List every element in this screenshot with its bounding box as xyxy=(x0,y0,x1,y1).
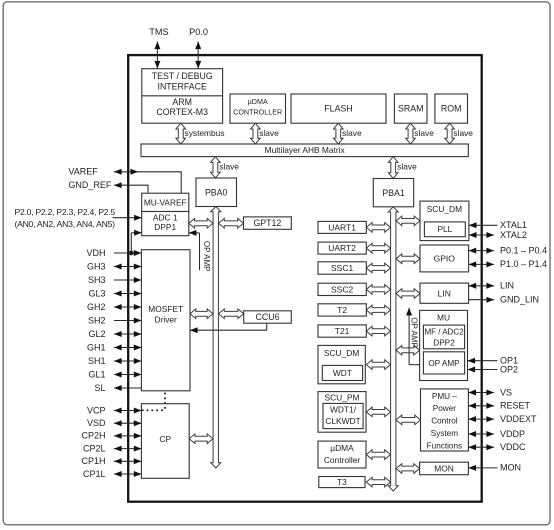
wire OP AMP output up (right side) xyxy=(408,308,410,365)
svg-text:GH1: GH1 xyxy=(87,342,106,352)
bus arrow left bus to GPT12 xyxy=(219,219,244,229)
pin arrow CP1H xyxy=(114,460,141,462)
block LIN transceiver xyxy=(420,283,469,303)
bus arrow right bus to MON xyxy=(396,464,420,474)
block WDT inside SCU_DM xyxy=(322,365,362,380)
svg-text:GH2: GH2 xyxy=(87,302,106,312)
svg-text:VDDC: VDDC xyxy=(500,442,526,452)
pin arrow OP2 xyxy=(468,369,498,371)
svg-text:OP AMP: OP AMP xyxy=(428,359,460,368)
bus arrow SSC2 to right bus xyxy=(366,285,390,295)
svg-text:MU-VAREF: MU-VAREF xyxy=(144,197,187,207)
block SCU_DM (right) xyxy=(420,201,469,241)
bus arrow T2 to right bus xyxy=(366,305,390,315)
block SSC1 xyxy=(318,262,366,274)
block MU-VAREF xyxy=(142,193,189,211)
pin arrow LIN xyxy=(469,285,494,287)
pin arrow GND_LIN xyxy=(469,299,494,301)
wire dotted into CP (horizontal) xyxy=(142,409,165,411)
block OP AMP inside MU xyxy=(423,352,464,374)
svg-text:CCU6: CCU6 xyxy=(256,312,280,322)
svg-text:T2: T2 xyxy=(337,305,347,315)
pin arrow OP1 xyxy=(468,360,498,362)
wire dotted MOSFET Driver to CP (vertical) xyxy=(164,393,166,411)
svg-text:CP2L: CP2L xyxy=(83,443,106,453)
junction VDH node xyxy=(129,251,134,256)
pin arrow SH1 xyxy=(114,360,141,362)
wire VAREF to MU-VAREF xyxy=(114,171,182,173)
pin arrow XTAL2 xyxy=(469,234,494,236)
svg-text:SRAM: SRAM xyxy=(398,104,423,114)
svg-text:TEST / DEBUG: TEST / DEBUG xyxy=(152,71,213,81)
svg-text:CONTROLLER: CONTROLLER xyxy=(233,108,282,117)
svg-text:XTAL1: XTAL1 xyxy=(500,220,527,230)
block MOSFET Driver xyxy=(141,250,190,391)
svg-text:MF / ADC2: MF / ADC2 xyxy=(424,328,464,337)
block UART1 xyxy=(318,221,366,233)
svg-text:FLASH: FLASH xyxy=(324,104,352,114)
pin arrow GH3 xyxy=(114,266,141,268)
svg-text:µDMA: µDMA xyxy=(330,443,354,453)
svg-text:T21: T21 xyxy=(335,326,350,336)
svg-text:CP1H: CP1H xyxy=(81,456,105,466)
svg-text:CP: CP xyxy=(159,434,171,444)
block CP charge pump xyxy=(141,404,189,479)
svg-text:slave: slave xyxy=(259,128,279,138)
bus arrow SCU_DM to right bus xyxy=(366,360,390,370)
pin arrow GL2 xyxy=(114,333,141,335)
bus arrow right bus to PMU xyxy=(396,415,421,425)
bus arrow systembus (ARM to matrix) xyxy=(176,123,186,144)
pin arrow GH2 xyxy=(114,306,141,308)
svg-text:slave: slave xyxy=(414,128,434,138)
svg-text:SSC1: SSC1 xyxy=(331,263,353,273)
pin arrow CP1L xyxy=(114,473,141,475)
svg-text:RESET: RESET xyxy=(500,401,531,411)
pin arrow P0.1 – P0.4 xyxy=(469,250,494,252)
pin arrow CP2L xyxy=(114,448,141,450)
pin arrow VSD xyxy=(114,422,141,424)
svg-text:ARM: ARM xyxy=(172,97,192,107)
block ROM xyxy=(435,94,468,123)
svg-text:MON: MON xyxy=(434,464,454,474)
svg-text:CORTEX-M3: CORTEX-M3 xyxy=(156,107,208,117)
svg-text:SCU_DM: SCU_DM xyxy=(427,204,462,214)
svg-text:VCP: VCP xyxy=(87,405,106,415)
bus arrow slave (matrix to PBA1) xyxy=(388,157,398,179)
pin arrow SH3 xyxy=(114,279,141,281)
bus arrow right bus to GPIO xyxy=(396,254,420,264)
svg-text:µDMA: µDMA xyxy=(248,97,268,106)
pin arrow CP2H xyxy=(114,435,141,437)
pin arrow P0.0 xyxy=(197,42,199,69)
pin arrow VDDC xyxy=(468,446,494,448)
block SCU_DM (middle) xyxy=(318,345,365,383)
block SRAM xyxy=(394,94,427,123)
svg-text:ADC 1: ADC 1 xyxy=(153,213,178,223)
svg-text:VDDP: VDDP xyxy=(500,429,525,439)
divider TEST-DEBUG / ARM xyxy=(142,95,223,97)
wire CCU6 to MOSFET Driver xyxy=(266,323,268,330)
bus arrow MOSFET Driver to left bus xyxy=(190,309,213,319)
block ADC1/DPP1 xyxy=(142,212,189,236)
bus arrow uDMA Controller to right bus xyxy=(366,450,390,460)
pin arrow GL1 xyxy=(114,374,141,376)
svg-text:DPP2: DPP2 xyxy=(433,339,455,348)
pin arrow SL xyxy=(114,387,141,389)
svg-text:LIN: LIN xyxy=(438,288,451,298)
pin arrow GL3 xyxy=(114,293,141,295)
svg-text:P0.0: P0.0 xyxy=(189,27,208,37)
svg-text:DPP1: DPP1 xyxy=(154,222,176,232)
bus arrow slave (uDMA to matrix) xyxy=(251,123,261,144)
svg-text:PBA0: PBA0 xyxy=(205,188,228,198)
bus arrow SCU_PM to right bus xyxy=(366,407,390,417)
svg-text:slave: slave xyxy=(342,128,362,138)
bus arrow right bus to LIN xyxy=(396,289,420,299)
pin arrow XTAL1 xyxy=(469,224,498,226)
svg-text:PBA1: PBA1 xyxy=(382,188,405,198)
svg-text:Driver: Driver xyxy=(155,315,178,325)
svg-text:GL3: GL3 xyxy=(88,288,105,298)
block FLASH xyxy=(291,94,386,123)
svg-text:SH2: SH2 xyxy=(88,315,106,325)
block MON monitor input xyxy=(420,462,469,475)
svg-text:SSC2: SSC2 xyxy=(331,284,353,294)
svg-text:MU: MU xyxy=(437,313,450,323)
svg-text:TMS: TMS xyxy=(149,27,168,37)
block SCU_PM xyxy=(318,392,366,433)
block UART2 xyxy=(318,242,366,254)
svg-text:PLL: PLL xyxy=(437,224,452,234)
block GPIO xyxy=(420,245,469,272)
pin arrow TMS xyxy=(156,42,158,69)
svg-text:P0.1 – P0.4: P0.1 – P0.4 xyxy=(500,245,547,255)
svg-text:VAREF: VAREF xyxy=(68,167,98,177)
bus arrow slave (SRAM to matrix) xyxy=(406,123,416,144)
svg-text:INTERFACE: INTERFACE xyxy=(158,81,207,91)
block WDT1/CLKWDT inside SCU_PM xyxy=(323,403,363,428)
svg-text:T3: T3 xyxy=(337,477,347,487)
bus arrow right bus to MU xyxy=(396,346,420,356)
svg-text:GL1: GL1 xyxy=(88,369,105,379)
wire OP AMP feedback into DPP1 xyxy=(189,232,200,234)
pin arrow GH1 xyxy=(114,347,141,349)
svg-text:UART1: UART1 xyxy=(328,222,356,232)
wire VDH branch up to DPP1 xyxy=(130,233,132,253)
pin arrow P1.0 – P1.4 xyxy=(469,263,494,265)
pin arrow VDH xyxy=(114,252,141,254)
main chip boundary box xyxy=(128,55,482,502)
svg-text:GPT12: GPT12 xyxy=(253,218,281,228)
block CCU6 xyxy=(244,311,292,323)
svg-text:Multilayer AHB Matrix: Multilayer AHB Matrix xyxy=(265,145,346,155)
svg-text:VDDEXT: VDDEXT xyxy=(500,414,537,424)
peripheral bus left (below PBA0) xyxy=(211,207,221,469)
bus arrow T3 to right bus xyxy=(366,477,390,487)
svg-text:CLKWDT: CLKWDT xyxy=(325,416,360,426)
block MU measurement unit xyxy=(420,310,468,380)
svg-text:Control: Control xyxy=(431,417,458,426)
svg-text:WDT: WDT xyxy=(333,368,352,378)
block TEST/DEBUG INTERFACE + ARM CORTEX-M3 xyxy=(142,69,223,124)
block PLL inside SCU_DM xyxy=(424,222,465,237)
svg-text:VDH: VDH xyxy=(86,248,105,258)
bus arrow right bus to SCU_DM/PLL xyxy=(396,216,420,226)
block uDMA CONTROLLER (top) xyxy=(230,94,286,123)
svg-text:UART2: UART2 xyxy=(328,243,356,253)
bus arrow slave (matrix to PBA0) xyxy=(211,157,221,178)
block uDMA Controller (bottom) xyxy=(318,441,366,468)
pin arrow VDDEXT xyxy=(468,418,494,420)
pin arrow MON xyxy=(468,467,497,469)
bus arrow CP to left bus xyxy=(189,434,213,444)
pin arrow RESET xyxy=(468,405,494,407)
pin arrow VS xyxy=(468,392,494,394)
svg-text:GND_LIN: GND_LIN xyxy=(500,294,539,304)
svg-text:slave: slave xyxy=(219,162,239,172)
block T3 timer xyxy=(319,477,365,488)
svg-text:Controller: Controller xyxy=(324,455,361,465)
bus arrow UART2 to right bus xyxy=(366,243,390,253)
svg-text:LIN: LIN xyxy=(500,281,514,291)
bus Multilayer AHB Matrix bar xyxy=(141,144,468,157)
svg-text:(AN0, AN2, AN3, AN4, AN5): (AN0, AN2, AN3, AN4, AN5) xyxy=(15,219,116,229)
svg-text:OP2: OP2 xyxy=(500,364,518,374)
svg-text:OP AMP: OP AMP xyxy=(409,317,418,348)
bus arrow ADC1/DPP1 to left bus xyxy=(189,219,213,229)
block PMU Power Control System Functions xyxy=(421,389,469,451)
bus arrow slave (ROM to matrix) xyxy=(445,123,455,144)
svg-text:SCU_PM: SCU_PM xyxy=(325,393,360,403)
block timer T2 xyxy=(318,304,366,316)
svg-text:MOSFET: MOSFET xyxy=(148,304,183,314)
svg-text:SCU_DM: SCU_DM xyxy=(324,348,359,358)
svg-text:XTAL2: XTAL2 xyxy=(500,230,527,240)
svg-text:SH1: SH1 xyxy=(88,356,106,366)
svg-text:WDT1/: WDT1/ xyxy=(330,405,357,415)
svg-text:VSD: VSD xyxy=(87,418,106,428)
svg-text:VS: VS xyxy=(500,387,512,397)
svg-text:CP1L: CP1L xyxy=(83,469,106,479)
svg-text:GL2: GL2 xyxy=(88,329,105,339)
svg-text:PMU –: PMU – xyxy=(432,392,457,401)
bus arrow left bus to CCU6 xyxy=(219,309,244,319)
svg-text:ROM: ROM xyxy=(441,104,462,114)
block GPT12 xyxy=(244,217,292,229)
bus arrow UART1 to right bus xyxy=(366,223,390,233)
svg-text:SL: SL xyxy=(94,383,105,393)
pin arrow VCP xyxy=(114,410,141,412)
svg-text:slave: slave xyxy=(453,128,473,138)
svg-text:Functions: Functions xyxy=(427,441,463,450)
svg-text:slave: slave xyxy=(397,162,417,172)
svg-text:OP AMP: OP AMP xyxy=(202,241,211,272)
block PBA0 xyxy=(196,178,237,207)
wire GND_REF to MU-VAREF xyxy=(114,184,149,186)
svg-text:MON: MON xyxy=(500,463,521,473)
block MF/ADC2 DPP2 inside MU xyxy=(423,325,464,349)
bus arrow SSC1 to right bus xyxy=(366,263,390,273)
peripheral bus right (below PBA1) xyxy=(388,207,398,491)
svg-text:Power: Power xyxy=(433,404,456,413)
pin arrow SH2 xyxy=(114,320,141,322)
svg-text:P2.0, P2.2, P2.3, P2.4, P2.5: P2.0, P2.2, P2.3, P2.4, P2.5 xyxy=(15,207,116,217)
block SSC2 xyxy=(318,283,366,295)
wire P2.x to ADC1 xyxy=(113,217,142,219)
block timer T21 xyxy=(318,325,366,337)
bus arrow T21 to right bus xyxy=(366,326,390,336)
svg-text:systembus: systembus xyxy=(185,128,225,138)
bus arrow slave (FLASH to matrix) xyxy=(334,123,344,144)
svg-text:CP2H: CP2H xyxy=(81,431,105,441)
svg-text:GND_REF: GND_REF xyxy=(68,180,112,190)
svg-text:GPIO: GPIO xyxy=(434,254,456,264)
svg-text:GH3: GH3 xyxy=(87,261,106,271)
svg-text:SH3: SH3 xyxy=(88,275,106,285)
pin arrow VDDP xyxy=(468,433,494,435)
svg-text:System: System xyxy=(431,429,458,438)
svg-text:P1.0 – P1.4: P1.0 – P1.4 xyxy=(500,259,547,269)
block PBA1 xyxy=(373,179,413,207)
